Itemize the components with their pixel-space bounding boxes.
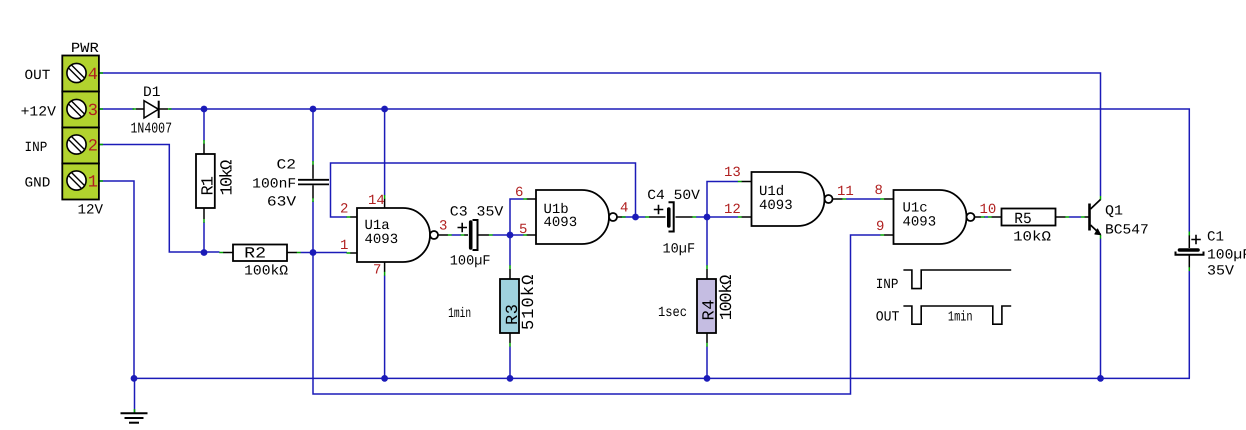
- svg-text:4093: 4093: [544, 215, 578, 231]
- svg-text:1sec: 1sec: [658, 305, 687, 321]
- svg-text:10µF: 10µF: [663, 242, 696, 258]
- svg-text:510kΩ: 510kΩ: [520, 275, 539, 330]
- svg-text:4: 4: [620, 201, 628, 217]
- svg-text:D1: D1: [143, 85, 161, 101]
- svg-text:3: 3: [88, 102, 98, 121]
- svg-text:R2: R2: [244, 245, 266, 263]
- svg-text:100kΩ: 100kΩ: [244, 264, 288, 280]
- svg-text:12V: 12V: [78, 203, 104, 219]
- svg-text:4093: 4093: [365, 232, 399, 248]
- svg-text:10kΩ: 10kΩ: [218, 160, 237, 196]
- svg-text:5: 5: [519, 222, 527, 238]
- svg-text:100kΩ: 100kΩ: [718, 275, 737, 321]
- svg-text:100µF: 100µF: [450, 254, 491, 270]
- svg-text:1: 1: [88, 174, 98, 193]
- svg-text:1N4007: 1N4007: [131, 120, 173, 137]
- svg-text:100nF: 100nF: [252, 177, 296, 193]
- svg-text:12: 12: [724, 202, 741, 218]
- svg-text:OUT: OUT: [25, 68, 51, 84]
- svg-text:10: 10: [980, 202, 997, 218]
- svg-text:13: 13: [724, 165, 741, 181]
- svg-text:14: 14: [368, 193, 385, 209]
- svg-text:GND: GND: [25, 175, 51, 191]
- svg-text:Q1: Q1: [1105, 204, 1123, 220]
- svg-text:BC547: BC547: [1105, 223, 1149, 239]
- svg-text:6: 6: [515, 185, 523, 201]
- svg-text:2: 2: [340, 202, 348, 218]
- svg-text:INP: INP: [876, 277, 899, 293]
- svg-text:OUT: OUT: [876, 309, 900, 325]
- svg-text:C1: C1: [1207, 230, 1224, 246]
- svg-text:C3 35V: C3 35V: [450, 205, 504, 221]
- svg-text:C2: C2: [277, 158, 297, 174]
- svg-text:INP: INP: [25, 140, 48, 156]
- svg-text:1min: 1min: [948, 309, 973, 325]
- svg-text:1min: 1min: [448, 306, 471, 322]
- svg-text:10kΩ: 10kΩ: [1013, 229, 1051, 245]
- svg-text:3: 3: [439, 219, 447, 235]
- svg-text:4: 4: [88, 66, 98, 85]
- svg-text:4093: 4093: [759, 198, 793, 214]
- svg-text:100µF: 100µF: [1207, 248, 1246, 264]
- svg-text:2: 2: [88, 138, 98, 157]
- svg-text:1: 1: [340, 238, 348, 254]
- svg-text:9: 9: [876, 219, 884, 235]
- svg-text:8: 8: [875, 183, 883, 199]
- svg-text:PWR: PWR: [71, 41, 100, 57]
- svg-text:R4: R4: [701, 300, 720, 321]
- svg-text:+12V: +12V: [21, 105, 57, 121]
- svg-text:7: 7: [373, 263, 381, 279]
- svg-text:R5: R5: [1014, 210, 1031, 228]
- svg-text:4093: 4093: [903, 215, 937, 231]
- svg-text:63V: 63V: [267, 195, 297, 211]
- svg-text:R1: R1: [200, 176, 219, 196]
- svg-text:35V: 35V: [1207, 264, 1235, 280]
- svg-text:11: 11: [837, 184, 854, 200]
- svg-text:C4 50V: C4 50V: [647, 188, 700, 204]
